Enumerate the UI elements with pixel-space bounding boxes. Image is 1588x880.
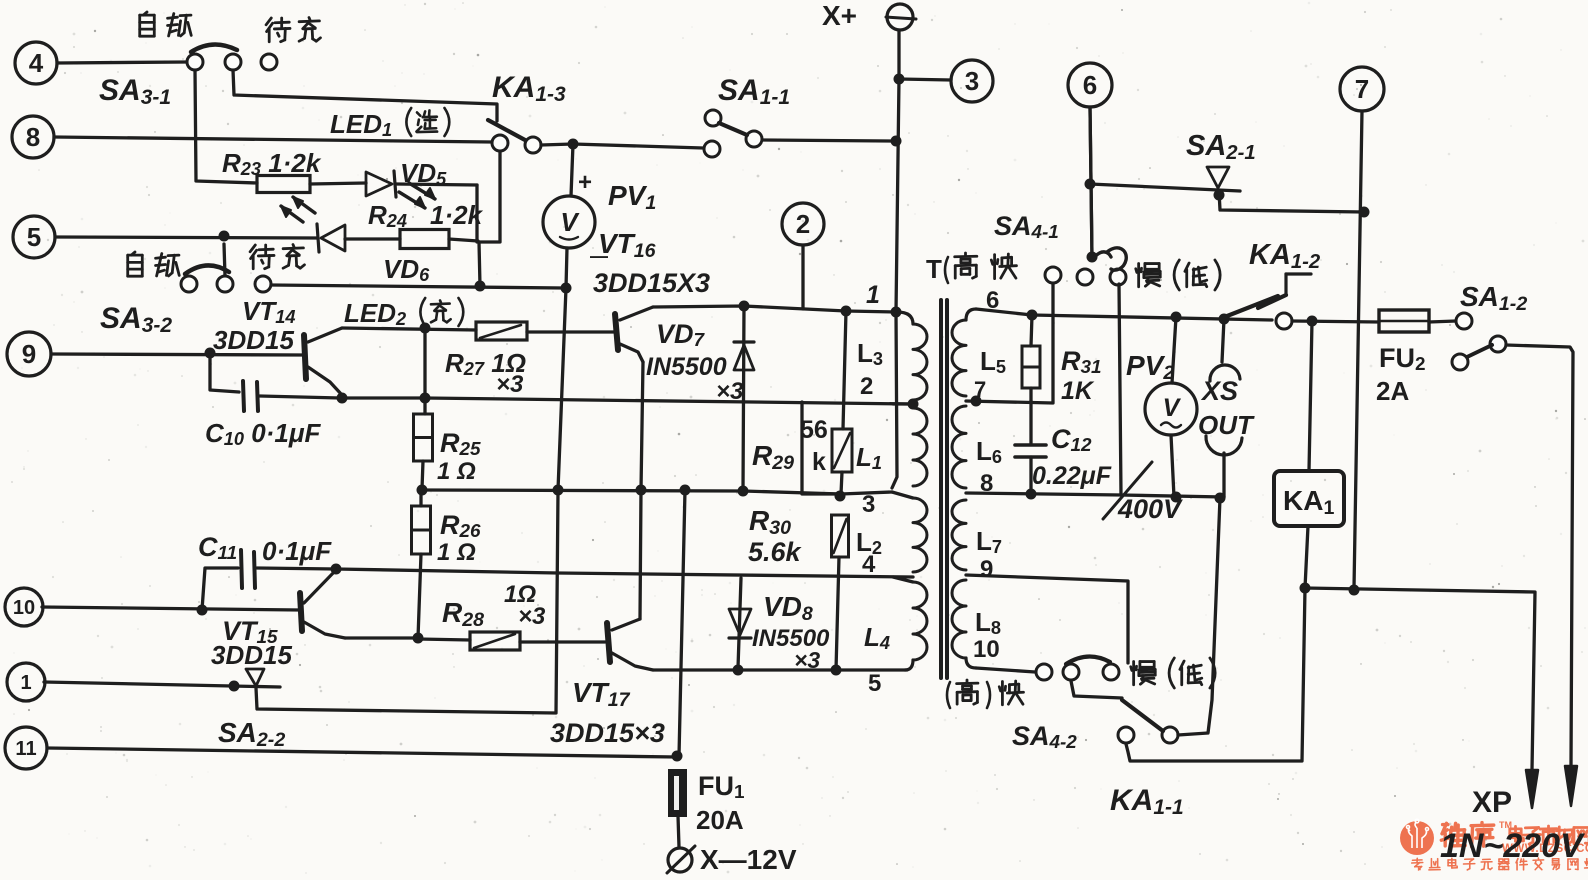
label SA3-2 auto bbox=[131, 252, 135, 255]
resistor R29 bbox=[832, 429, 852, 472]
wire SA4-2 to riser bbox=[1178, 498, 1220, 735]
diode VD7 bbox=[743, 306, 744, 491]
svg-text:R23 1·2k: R23 1·2k bbox=[222, 148, 322, 179]
wire tap4 bus y577 bbox=[336, 569, 913, 577]
socket XS OUT bbox=[1222, 319, 1224, 362]
wire R24 node down to VD6 line bbox=[479, 242, 480, 286]
wire VT17 collector up bbox=[640, 490, 641, 619]
wire X+ vertical bbox=[892, 79, 899, 488]
svg-text:+: + bbox=[578, 169, 592, 196]
transistor VT17 bbox=[607, 623, 610, 662]
wire R28 to VT17 base bbox=[520, 640, 605, 643]
svg-text:2: 2 bbox=[860, 373, 873, 400]
wire SA2-1 line bbox=[1090, 107, 1092, 257]
svg-text:k: k bbox=[812, 448, 826, 476]
wire terminal10 to VT15 bbox=[42, 607, 300, 610]
wire emitter bus y398 bbox=[342, 398, 913, 404]
watermark brand text bbox=[1441, 820, 1588, 847]
node R29 top bbox=[841, 306, 852, 317]
transistor VT15 bbox=[300, 593, 302, 631]
svg-text:×3: ×3 bbox=[716, 378, 744, 405]
resistor R30 bbox=[832, 515, 849, 557]
svg-text:9: 9 bbox=[22, 339, 36, 369]
svg-text:10: 10 bbox=[973, 636, 1000, 663]
wire node to SA1-1 bbox=[573, 144, 703, 148]
svg-text:3: 3 bbox=[862, 491, 875, 518]
wire secondary top bus bbox=[976, 309, 1272, 320]
wire R27 to VT16 base bbox=[527, 330, 615, 333]
wire SA4-1 c3 riser bbox=[1119, 284, 1121, 495]
resistor R23 bbox=[257, 176, 310, 193]
fuse FU1 bbox=[669, 770, 686, 816]
switch SA2-2 triangle bbox=[246, 669, 264, 686]
node SA3-2 top bbox=[219, 231, 230, 242]
svg-text:2A: 2A bbox=[1376, 376, 1409, 406]
node FU1 top bbox=[672, 751, 683, 762]
node terminal3 branch bbox=[894, 74, 905, 85]
svg-text:11: 11 bbox=[15, 738, 36, 760]
svg-text:3: 3 bbox=[965, 66, 979, 96]
terminal 6 bbox=[1068, 63, 1112, 107]
node PV1 bottom bbox=[561, 283, 572, 294]
svg-text:10: 10 bbox=[13, 597, 35, 619]
svg-text:7: 7 bbox=[1355, 74, 1369, 104]
switch SA3-1 contacts bbox=[187, 54, 203, 70]
svg-text:0·1μF: 0·1μF bbox=[262, 536, 332, 566]
node PV1 top bbox=[568, 139, 579, 150]
transistor VT14 bbox=[304, 335, 306, 379]
svg-text:3DD15X3: 3DD15X3 bbox=[593, 268, 710, 298]
diode VD5 LED bbox=[366, 172, 392, 196]
svg-text:3DD15: 3DD15 bbox=[211, 640, 292, 670]
watermark slogan bbox=[1413, 859, 1423, 861]
label SA3-1 standby bbox=[266, 18, 271, 25]
wire R25 column bbox=[423, 328, 426, 414]
svg-text:400V: 400V bbox=[1117, 494, 1183, 524]
node tap2 bbox=[908, 399, 919, 410]
node VT16 emitter bus bbox=[636, 485, 647, 496]
terminal 3 bbox=[951, 60, 993, 102]
wire KA1 to SA4-2 loop bbox=[1126, 588, 1305, 761]
node terminal7 bottom bbox=[1349, 585, 1360, 596]
wire X+ down bbox=[897, 30, 900, 79]
terminal 9 bbox=[7, 332, 51, 376]
svg-text:0.22μF: 0.22μF bbox=[1032, 462, 1112, 490]
connector X-12V bbox=[668, 848, 692, 872]
svg-text:×3: ×3 bbox=[518, 603, 546, 630]
label high fast bottom bbox=[947, 682, 950, 708]
slash 400V bbox=[1103, 462, 1152, 519]
node X+ bus bbox=[891, 307, 902, 318]
svg-text:XS: XS bbox=[1200, 376, 1238, 406]
wire R29 left leg bbox=[802, 402, 841, 494]
wire term6 riser bbox=[1090, 107, 1092, 257]
wire FU2 to SA1-2 bbox=[1429, 321, 1456, 322]
wire R26 down to R28 node bbox=[418, 554, 421, 638]
wire terminal9 to VT14 base bbox=[51, 354, 304, 355]
wire VT16 emitter down bbox=[641, 362, 643, 490]
wire R30 bottom down bbox=[836, 557, 839, 670]
svg-text:3DD15: 3DD15 bbox=[213, 325, 294, 355]
capacitor C11 bbox=[202, 568, 238, 610]
wire R24 to node bbox=[449, 239, 478, 241]
node PV1- bottom bbox=[553, 485, 564, 496]
node C10 left bbox=[205, 348, 216, 359]
node C11 left bbox=[197, 605, 208, 616]
svg-text:V: V bbox=[560, 207, 580, 237]
node PV2 bottom bbox=[1171, 492, 1182, 503]
wire SA3-1 c1 down to R23 bbox=[195, 70, 257, 183]
wire SA1-1 to X+ line bbox=[763, 140, 893, 141]
plug pin left bbox=[1526, 770, 1538, 808]
wire R25 to node bbox=[422, 461, 423, 489]
svg-text:X+: X+ bbox=[822, 0, 857, 31]
wire emitter tap5 line bbox=[653, 668, 907, 671]
wire to terminal 3 bbox=[899, 79, 951, 80]
label slow low bottom bbox=[1132, 662, 1135, 685]
wire FU1 column bbox=[679, 490, 685, 756]
svg-text:X—12V: X—12V bbox=[700, 844, 797, 875]
wire VT15 emitter to R28 node bbox=[345, 636, 418, 639]
terminal 4 bbox=[15, 42, 57, 84]
label slow low right bbox=[1137, 264, 1140, 287]
terminal 8 bbox=[12, 116, 54, 158]
node C12 bottom bbox=[1026, 489, 1037, 500]
node R30 bottom bbox=[831, 665, 842, 676]
node R28 left bbox=[413, 633, 424, 644]
transformer core bbox=[939, 300, 943, 678]
wire PV1 to bottom node bbox=[566, 248, 567, 288]
svg-text:1·2k: 1·2k bbox=[430, 200, 484, 230]
svg-text:5.6k: 5.6k bbox=[748, 537, 803, 567]
wire terminal1 to SA2-2 bbox=[44, 682, 280, 687]
wire collector bus bbox=[653, 306, 896, 312]
relay contacts KA1-1 row bbox=[1036, 664, 1052, 680]
svg-text:3DD15×3: 3DD15×3 bbox=[550, 718, 665, 748]
wire SA3-2 to PV1 bottom node bbox=[271, 285, 564, 288]
wire terminal8 to KA1-3 bbox=[54, 137, 492, 142]
svg-text:×3: ×3 bbox=[794, 647, 820, 673]
svg-text:1: 1 bbox=[866, 281, 880, 309]
terminal 7 bbox=[1340, 67, 1384, 111]
node R30 top bbox=[835, 491, 846, 502]
wire tap8 line bbox=[966, 493, 1224, 497]
node R31 top bbox=[1027, 310, 1038, 321]
switch SA3-2 contacts bbox=[224, 244, 225, 276]
terminal 10 bbox=[5, 588, 43, 626]
svg-text:56: 56 bbox=[800, 416, 828, 444]
plug pin right bbox=[1565, 766, 1577, 806]
node VD7 bottom bbox=[738, 486, 749, 497]
svg-text:1: 1 bbox=[20, 672, 31, 694]
svg-text:IN5500: IN5500 bbox=[646, 353, 727, 381]
svg-text:1 Ω: 1 Ω bbox=[437, 539, 476, 566]
wire tap3 stub bbox=[892, 492, 913, 498]
svg-text:1K: 1K bbox=[1061, 377, 1095, 405]
svg-text:2: 2 bbox=[796, 209, 810, 239]
wire corner down to R24 node bbox=[477, 151, 500, 242]
relay contact KA1-3 bbox=[492, 135, 508, 151]
wire VT14 collector to R27 bbox=[342, 328, 476, 330]
terminal 5 bbox=[13, 216, 55, 258]
wire KA1 bottom bbox=[1305, 526, 1308, 588]
terminal 2 bbox=[782, 203, 824, 245]
node tap7 bbox=[971, 396, 982, 407]
node XS bottom bbox=[1215, 493, 1226, 504]
resistor R27 bbox=[476, 322, 527, 340]
wire tap10 to contact bbox=[976, 668, 1035, 672]
wire SA2-1 to terminal7 riser bbox=[1219, 191, 1364, 212]
svg-text:V: V bbox=[1163, 394, 1182, 422]
resistor R24 bbox=[400, 230, 449, 249]
node XS top bbox=[1219, 314, 1230, 325]
voltmeter PV1 bbox=[571, 144, 573, 196]
node VD8 bottom bbox=[733, 665, 744, 676]
wire tap7 line bbox=[966, 282, 1053, 403]
wire R29 bottom bbox=[841, 472, 842, 494]
node SA1-1 right bbox=[891, 136, 902, 147]
svg-text:OUT: OUT bbox=[1198, 410, 1255, 440]
svg-text:T: T bbox=[926, 254, 942, 284]
wire VD6 to R24 bbox=[345, 237, 400, 240]
resistor R28 bbox=[418, 639, 470, 640]
resistor R31 bbox=[1031, 315, 1032, 346]
node SA2-2 bbox=[229, 681, 240, 692]
node LED2 wire bbox=[420, 323, 431, 334]
wire bottom bus to XP bbox=[1305, 588, 1535, 770]
node C11 right bbox=[331, 564, 342, 575]
transistor VT16 bbox=[615, 314, 618, 350]
wire KA1-2 to FU2 bbox=[1292, 321, 1379, 322]
wire bus y490 bbox=[422, 490, 892, 494]
svg-text:6: 6 bbox=[1083, 70, 1097, 100]
svg-text:8: 8 bbox=[26, 122, 40, 152]
svg-text:1 Ω: 1 Ω bbox=[437, 458, 476, 485]
terminal 1 bbox=[7, 663, 45, 701]
capacitor C10 bbox=[210, 353, 239, 392]
watermark logo circle bbox=[1400, 821, 1434, 855]
voltmeter PV2 bbox=[1172, 317, 1176, 383]
svg-text:4: 4 bbox=[862, 551, 876, 578]
wire terminal7 down bbox=[1354, 111, 1362, 588]
wire SA3-1 c2 down right to KA1-3 bbox=[233, 70, 497, 121]
switch SA1-1 bbox=[705, 110, 721, 126]
label SA3-1 auto bbox=[143, 12, 147, 15]
transformer T secondary winding bbox=[966, 309, 976, 320]
capacitor C12 bbox=[1029, 401, 1032, 443]
resistor R26 bbox=[419, 491, 422, 506]
switch SA4-1 bbox=[1045, 267, 1061, 283]
wire FU1 to X-12V bbox=[678, 816, 679, 847]
label SA3-2 standby bbox=[250, 245, 255, 252]
svg-text:5: 5 bbox=[27, 222, 41, 252]
wire tap9 to contact bbox=[966, 575, 1128, 663]
wire VD5 to corner bbox=[396, 184, 477, 185]
relay contact KA1-2 bbox=[1286, 272, 1311, 275]
node KA1 bottom bbox=[1300, 583, 1311, 594]
wire SA2-2 drop to riser bbox=[256, 492, 558, 713]
node FU1 column top bbox=[680, 485, 691, 496]
wire tap4 stub bbox=[893, 577, 913, 582]
switch SA1-2 bbox=[1456, 313, 1472, 329]
transformer T primary winding bbox=[897, 312, 913, 324]
switch SA2-1 triangle bbox=[1207, 167, 1229, 188]
node PV2 top bbox=[1171, 312, 1182, 323]
node VD6-R24 junction bbox=[475, 281, 486, 292]
relay coil KA1 box bbox=[1274, 471, 1344, 526]
wire tap2 stub bbox=[893, 402, 913, 405]
wire PV1 node down bbox=[558, 288, 566, 490]
wire R23 to VD5 bbox=[310, 183, 366, 184]
node VT14 emitter bbox=[337, 393, 348, 404]
node KA1 coil top bbox=[1307, 316, 1318, 327]
switch SA4-2 bbox=[1118, 727, 1134, 743]
diode VD6 LED bbox=[317, 224, 319, 252]
wire terminal5 to VD6 bbox=[55, 237, 317, 238]
diode VD8 bbox=[738, 578, 741, 668]
terminal 11 bbox=[5, 727, 47, 769]
wire terminal2 down bbox=[801, 245, 804, 309]
resistor R25 bbox=[414, 414, 433, 438]
svg-text:×3: ×3 bbox=[496, 371, 524, 398]
fuse FU2 bbox=[1379, 310, 1429, 332]
node R25-R26 bbox=[417, 485, 428, 496]
svg-text:4: 4 bbox=[29, 48, 44, 78]
node VD7 top bbox=[739, 301, 750, 312]
svg-text:XP: XP bbox=[1472, 786, 1512, 819]
wire KA1 top bbox=[1309, 321, 1312, 471]
wire terminal4 to SA3-1 bbox=[57, 62, 187, 63]
node SA2-1 joint bbox=[1359, 207, 1370, 218]
node R25 top bbox=[420, 393, 431, 404]
wire R29 column bbox=[843, 311, 846, 429]
svg-text:C10 0·1μF: C10 0·1μF bbox=[205, 418, 321, 449]
svg-text:20A: 20A bbox=[696, 805, 744, 835]
wire terminal11 to FU1 bbox=[47, 748, 676, 757]
wire KA1-3 to PV1 node bbox=[541, 144, 573, 145]
wire SA1-2 to right edge down bbox=[1506, 345, 1573, 766]
svg-text:5: 5 bbox=[868, 670, 881, 697]
svg-text:1N~220V: 1N~220V bbox=[1440, 827, 1586, 865]
svg-text:9: 9 bbox=[980, 556, 993, 583]
